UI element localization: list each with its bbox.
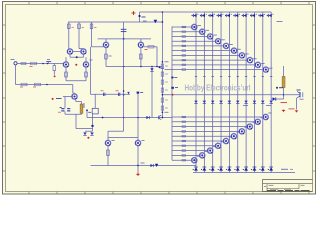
svg-text:Hobby Electronics’url: Hobby Electronics’url (185, 84, 251, 93)
